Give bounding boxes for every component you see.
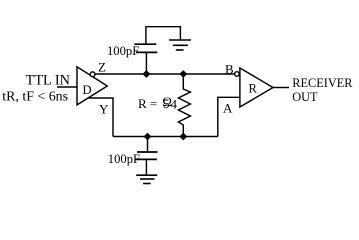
capacitor C1 top plate [134, 43, 156, 45]
junction node: C2 on bottom rail [144, 133, 150, 139]
ground symbol (bottom) [136, 175, 157, 183]
svg-text:Z: Z [98, 60, 106, 75]
receiver U2 (R) triangle [240, 68, 273, 107]
wire: Z output to receiver B input (top rail) [95, 73, 235, 75]
svg-text:R =: R = [138, 96, 157, 111]
junction node: C1 on top rail [143, 71, 149, 77]
wire: TTL input lead [57, 86, 77, 88]
svg-text:B: B [225, 62, 234, 77]
svg-text:100pF: 100pF [107, 44, 139, 58]
capacitor C2 bottom plate [136, 158, 158, 160]
capacitor C2 top plate [137, 151, 158, 153]
driver U1 (D) triangle [77, 67, 107, 105]
junction node: R bottom on bottom rail [180, 133, 186, 139]
svg-text:4: 4 [171, 97, 178, 112]
svg-text:D: D [83, 83, 92, 97]
wire: C2 bottom plate to ground [145, 159, 147, 175]
wire: C1 top plate to ground [146, 27, 181, 45]
svg-text:RECEIVER: RECEIVER [292, 76, 353, 90]
wire: driver Y output stub [89, 98, 114, 137]
inversion bubble on receiver B input [235, 72, 240, 77]
svg-text:100pF: 100pF [108, 152, 140, 166]
svg-text:A: A [223, 101, 233, 116]
capacitor C1 100pF top: stub from top rail [145, 53, 147, 75]
svg-text:TTL IN: TTL IN [26, 73, 70, 89]
svg-text:tR, tF < 6ns: tR, tF < 6ns [2, 89, 68, 104]
wire: riser up to receiver A input [218, 97, 240, 136]
capacitor C1 bottom plate [136, 51, 157, 53]
wire: bottom rail from Y to riser [113, 136, 218, 138]
svg-text:Y: Y [99, 102, 109, 117]
wire: receiver output lead [273, 87, 289, 89]
svg-text:OUT: OUT [292, 90, 318, 104]
junction node: R top on top rail [180, 71, 186, 77]
capacitor C2 100pF bottom: stub from bottom rail [147, 137, 149, 153]
resistor R 54ohm vertical [178, 74, 190, 137]
ground symbol (top) [169, 40, 191, 50]
svg-text:R: R [249, 82, 258, 96]
inversion bubble on driver Z output [90, 72, 95, 77]
